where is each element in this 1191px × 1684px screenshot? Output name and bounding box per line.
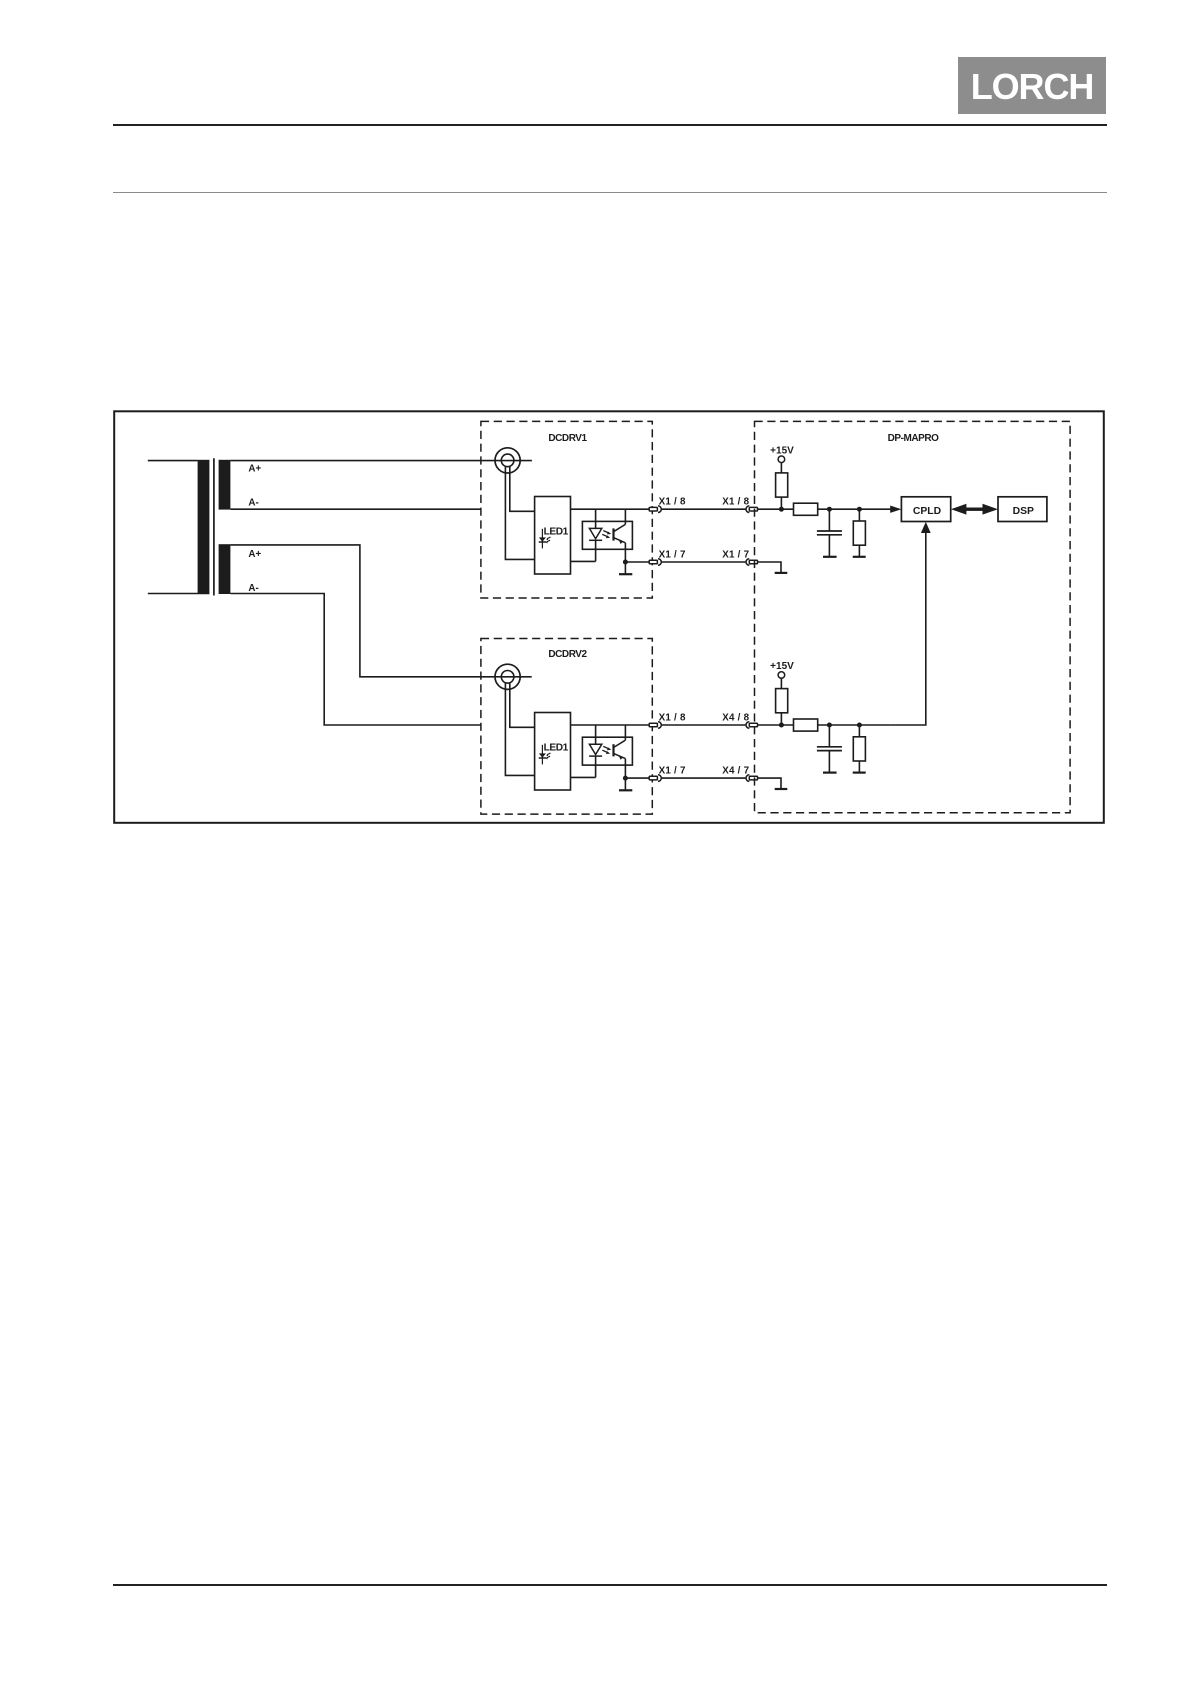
resistor shunt (vertical) <box>853 509 865 556</box>
svg-text:+15V: +15V <box>770 661 794 672</box>
wire LED1 bottom output to opto cathode <box>571 776 596 778</box>
connector X4/8 (DP-MAPRO pin) <box>746 722 758 729</box>
resistor pull-up (vertical) <box>776 473 788 497</box>
connector X1/7 (DCDRV1 pin) <box>649 559 661 566</box>
node capacitor junction <box>827 507 832 512</box>
module box DCDRV1 (dashed) <box>481 421 652 598</box>
wire toroid loop right drop to LED2 top input <box>510 683 535 728</box>
node pull-up junction <box>779 507 784 512</box>
resistor pull-up (vertical) <box>776 689 788 713</box>
phototransistor Q1 <box>614 524 626 562</box>
svg-text:X1 / 7: X1 / 7 <box>659 765 686 776</box>
node capacitor junction <box>827 723 832 728</box>
wire filter node <box>818 724 891 726</box>
capacitor filter <box>817 725 842 772</box>
svg-text:DCDRV2: DCDRV2 <box>548 649 587 660</box>
ground (capacitor) <box>823 771 837 773</box>
LORCH logo <box>958 57 1106 114</box>
connector X1/8 (DCDRV1 pin) <box>649 506 661 513</box>
transformer primary winding bar <box>198 460 210 594</box>
wire return pin to ground <box>758 562 782 572</box>
arrow into CPLD (channel 1) <box>890 506 901 513</box>
wire +15V to pull-up resistor <box>780 678 782 688</box>
wire pull-up resistor to input node <box>780 497 782 509</box>
bus arrow CPLD-DSP (double headed) <box>951 504 998 515</box>
wire A- secondary 2 to DCDRV2 <box>230 594 481 726</box>
wire A+ secondary 1 through toroid T1 <box>230 460 532 462</box>
LED indicator symbol inside LED1 <box>539 745 551 765</box>
ground (shunt resistor) <box>853 771 866 773</box>
node resistor junction <box>857 723 862 728</box>
ground (capacitor) <box>823 556 837 558</box>
current-sense toroid T1 inner ring <box>501 454 514 467</box>
svg-text:LED1: LED1 <box>544 743 569 754</box>
header sub-rule <box>113 192 1107 193</box>
wire X4/8 interconnect <box>661 724 746 726</box>
connector X1/7 (DP-MAPRO pin) <box>746 559 757 566</box>
wire toroid loop left drop to LED1 bottom input <box>505 466 534 559</box>
wire connector to series resistor <box>758 724 794 726</box>
wire X1/8 interconnect <box>661 508 746 510</box>
capacitor filter <box>817 509 842 556</box>
svg-text:X1 / 7: X1 / 7 <box>722 549 749 560</box>
phototransistor Q2 <box>614 740 626 778</box>
wire opto LED anode branch <box>595 725 597 744</box>
resistor series (horizontal) <box>794 719 818 731</box>
svg-text:A-: A- <box>248 497 258 508</box>
wire primary top <box>148 460 198 462</box>
svg-text:+15V: +15V <box>770 445 794 456</box>
optocoupler light arrows <box>602 531 611 539</box>
resistor shunt (vertical) <box>853 725 865 772</box>
resistor series (horizontal) <box>794 503 818 515</box>
ground (emitter) <box>619 562 632 574</box>
optocoupler LED (anode/cathode) <box>589 744 602 777</box>
optocoupler LED (anode/cathode) <box>589 528 602 561</box>
ground (return pin) <box>775 788 788 790</box>
svg-text:X1 / 8: X1 / 8 <box>722 496 749 507</box>
svg-text:X4 / 7: X4 / 7 <box>722 765 749 776</box>
node resistor junction <box>857 507 862 512</box>
LED driver block LED1 (module 2) <box>535 713 571 791</box>
wire connector to series resistor <box>758 508 794 510</box>
LED driver block LED1 (module 1) <box>535 497 571 575</box>
DSP block U4 <box>998 497 1047 522</box>
current-sense toroid T2 outer ring <box>495 664 520 689</box>
figure border frame <box>114 411 1104 823</box>
transformer secondary winding bar 2 <box>219 544 231 594</box>
wire A+ secondary 2 through toroid T2 <box>230 545 531 677</box>
connector X1/7 (DCDRV2 pin) <box>649 775 661 782</box>
optocoupler U1 box <box>582 521 632 549</box>
connector X4/7 (DP-MAPRO pin) <box>746 775 758 782</box>
wire X4/7 interconnect <box>661 777 746 779</box>
wire channel 2 to CPLD with junction at X4/8 row <box>891 533 926 725</box>
wire toroid loop left drop to LED2 bottom input <box>505 683 534 776</box>
transformer secondary winding bar 1 <box>219 460 231 510</box>
svg-text:X4 / 8: X4 / 8 <box>722 712 749 723</box>
wire return pin to ground <box>758 778 782 788</box>
module box DCDRV2 (dashed) <box>481 639 652 815</box>
svg-text:CPLD: CPLD <box>913 506 942 517</box>
LED indicator symbol inside LED1 <box>539 529 551 549</box>
node pull-up junction <box>779 723 784 728</box>
svg-text:A+: A+ <box>248 549 261 560</box>
wire A- secondary 1 to DCDRV1 <box>230 508 481 510</box>
arrow into CPLD bottom (channel 2) <box>921 522 931 533</box>
current-sense toroid T1 outer ring <box>495 448 520 473</box>
wire +15V to pull-up resistor <box>780 463 782 473</box>
wire LED1 output top row to connector <box>571 724 650 726</box>
wire X1/7 interconnect <box>661 561 746 563</box>
CPLD block U3 <box>901 497 950 522</box>
+15V supply terminal <box>778 672 785 679</box>
+15V supply terminal <box>778 456 785 463</box>
optocoupler U2 box <box>582 737 632 765</box>
wire emitter junction to connector <box>625 561 649 563</box>
svg-text:X1 / 8: X1 / 8 <box>659 496 686 507</box>
header rule <box>113 124 1107 126</box>
wire LED1 bottom output to opto cathode <box>571 560 596 562</box>
svg-text:A+: A+ <box>248 464 261 475</box>
footer rule <box>113 1584 1107 1586</box>
wire emitter junction to connector <box>625 777 649 779</box>
wire filter node <box>818 508 891 510</box>
svg-text:X1 / 8: X1 / 8 <box>659 712 686 723</box>
svg-text:DSP: DSP <box>1013 506 1034 517</box>
connector X1/8 (DP-MAPRO pin) <box>746 506 758 513</box>
svg-text:DCDRV1: DCDRV1 <box>548 433 587 444</box>
svg-text:DP-MAPRO: DP-MAPRO <box>888 433 940 444</box>
wire phototransistor collector branch <box>624 509 626 524</box>
current-sense toroid T2 inner ring <box>501 671 514 684</box>
module box DP-MAPRO (dashed) <box>755 421 1071 812</box>
wire primary bottom <box>148 593 210 595</box>
node emitter junction <box>623 560 628 565</box>
optocoupler light arrows <box>602 746 611 754</box>
wire phototransistor collector branch <box>624 725 626 740</box>
connector X1/8 (DCDRV2 pin) <box>649 722 661 729</box>
ground (emitter) <box>619 778 632 790</box>
svg-text:A-: A- <box>248 583 258 594</box>
wire pull-up resistor to input node <box>780 713 782 725</box>
node emitter junction <box>623 776 628 781</box>
wire LED1 output top row to connector <box>571 508 650 510</box>
wire toroid loop right drop to LED1 top input <box>510 466 535 511</box>
svg-text:LED1: LED1 <box>544 527 569 538</box>
ground (shunt resistor) <box>853 556 866 558</box>
ground (return pin) <box>775 572 788 574</box>
svg-text:X1 / 7: X1 / 7 <box>659 549 686 560</box>
wire opto LED anode branch <box>595 509 597 528</box>
transformer core line <box>213 458 215 595</box>
